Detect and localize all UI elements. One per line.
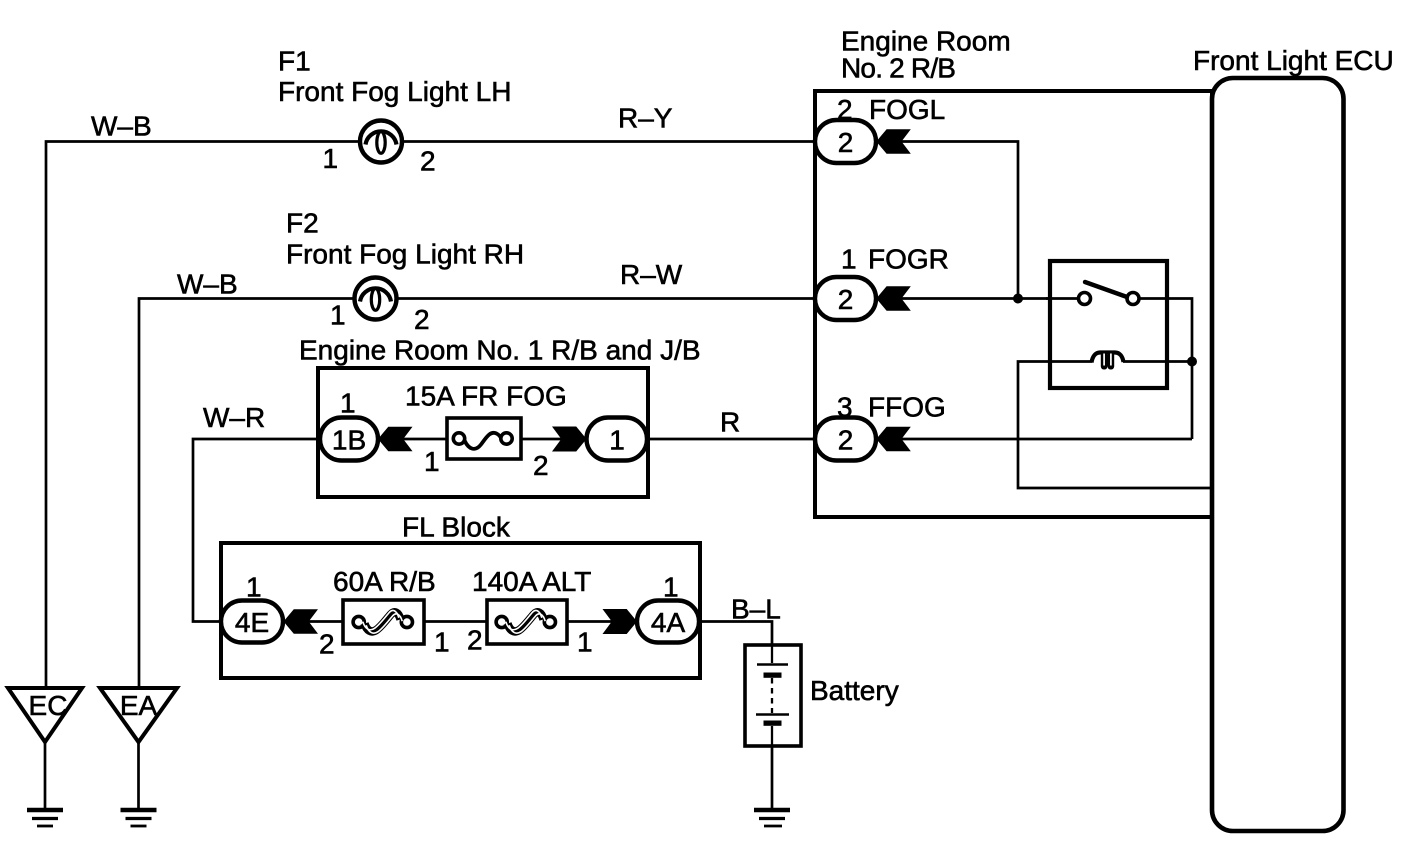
wire from FOGR arrow to relay switch contact [876,297,1079,300]
svg-text:R: R [720,407,740,438]
svg-text:1: 1 [609,425,625,456]
box Engine Room No. 2 R/B [815,91,1212,517]
battery [745,645,801,746]
svg-text:1: 1 [246,572,262,603]
svg-text:1: 1 [577,627,593,658]
connector 4A [637,601,699,643]
svg-text:1: 1 [323,143,339,174]
svg-text:2: 2 [319,629,335,660]
svg-text:15A FR FOG: 15A FR FOG [405,381,567,412]
wire from EC triangle to ground [44,742,47,808]
svg-text:1: 1 [663,572,679,603]
wire R-W from fog light F2 pin2 to connector FOGR [397,297,815,300]
arrow at connector 4A [603,609,638,634]
wire R-Y from fog light F1 pin2 to connector FOGL [402,140,815,143]
connector FFOG [815,418,876,461]
svg-text:F1: F1 [278,46,311,77]
wire from relay switch to FFOG net [1139,299,1192,440]
connector FOGR [815,277,876,320]
svg-text:Front Fog Light LH: Front Fog Light LH [278,76,511,107]
relay switch contact right [1127,293,1139,305]
svg-text:FL Block: FL Block [402,512,511,543]
arrow at connector FFOG [876,427,911,452]
svg-text:W–B: W–B [177,269,238,300]
wire W-R from connector 1B to FL block connector 4E [193,439,320,622]
svg-text:W–R: W–R [203,402,265,433]
relay switch contact left [1079,293,1091,305]
wire W-B from fog light F2 pin1 to ground EA [139,299,354,689]
svg-text:F2: F2 [286,208,319,239]
svg-text:FFOG: FFOG [868,392,946,423]
svg-text:Front Fog Light RH: Front Fog Light RH [286,239,524,270]
wire from FOGL arrow to relay switch net [876,142,1018,299]
wire into relay switch (redraw inside box) [1046,297,1079,300]
svg-text:1: 1 [841,244,857,275]
svg-text:1: 1 [340,388,356,419]
svg-text:1B: 1B [332,425,366,456]
svg-text:2: 2 [838,284,854,315]
svg-text:1: 1 [424,446,440,477]
svg-text:EC: EC [29,690,68,721]
node junction relay coil / FFOG net [1187,357,1197,367]
svg-text:4A: 4A [651,607,686,638]
wire relay coil right to junction [1123,360,1192,363]
svg-text:2: 2 [414,304,430,335]
svg-text:140A ALT: 140A ALT [472,566,591,597]
wire W-B from fog light F1 pin1 to ground EC [46,142,360,689]
svg-text:60A R/B: 60A R/B [333,566,436,597]
svg-text:2: 2 [467,625,483,656]
svg-text:2: 2 [533,450,549,481]
connector FOGL [815,120,876,163]
connector 1 (Engine Room No.1 output) [587,418,648,461]
relay coil [1092,352,1124,370]
connector 1B [320,418,378,461]
box Engine Room No. 1 R/B and J/B [318,368,648,497]
arrow at connector 1 (fuse output) [552,427,587,452]
ground symbol below EA [121,810,157,826]
fog light bulb F1 [360,121,402,163]
node junction FOGL/FOGR net [1013,294,1023,304]
wire from EA triangle to ground [137,742,140,808]
svg-text:1: 1 [330,300,346,331]
arrow at connector FOGL [876,129,911,154]
svg-text:Engine Room No. 1 R/B and J/B: Engine Room No. 1 R/B and J/B [299,335,701,366]
wire fuse row (1B to FFOG relay net) [378,438,1192,441]
arrow at connector 4E [284,609,319,634]
relay box [1050,261,1167,388]
arrow at connector FOGR [876,286,911,311]
box FL Block [221,543,700,678]
fuse 15A FR FOG [447,418,521,459]
fuse 60A R/B (fusible link) [343,600,424,644]
svg-text:B–L: B–L [731,594,781,625]
wire relay coil left to ECU pin [1018,362,1212,489]
svg-text:R–Y: R–Y [618,103,673,134]
svg-text:2: 2 [838,127,854,158]
svg-text:FOGR: FOGR [868,244,949,275]
Front Light ECU box [1212,78,1344,831]
ground triangle EA [100,688,177,742]
svg-text:No. 2 R/B: No. 2 R/B [841,53,955,84]
svg-text:FOGL: FOGL [869,94,945,125]
wire from battery to ground [771,746,774,808]
arrow at connector 1B [378,427,413,452]
svg-text:2: 2 [838,425,854,456]
ground triangle EC [8,688,82,742]
wire FL block row to battery (B-L) [283,622,772,646]
ground symbol below battery [754,810,790,826]
svg-text:Battery: Battery [810,675,899,706]
ground symbol below EC [27,810,63,826]
svg-text:R–W: R–W [620,259,683,290]
svg-text:4E: 4E [235,607,269,638]
svg-text:2: 2 [420,146,436,177]
svg-text:1: 1 [434,627,450,658]
connector 4E [221,601,283,643]
svg-text:EA: EA [120,690,158,721]
svg-text:W–B: W–B [91,111,152,142]
fog light bulb F2 [355,278,397,320]
fuse 140A ALT (fusible link) [487,600,567,644]
svg-text:Front Light ECU: Front Light ECU [1193,45,1394,76]
relay switch blade [1085,282,1127,297]
